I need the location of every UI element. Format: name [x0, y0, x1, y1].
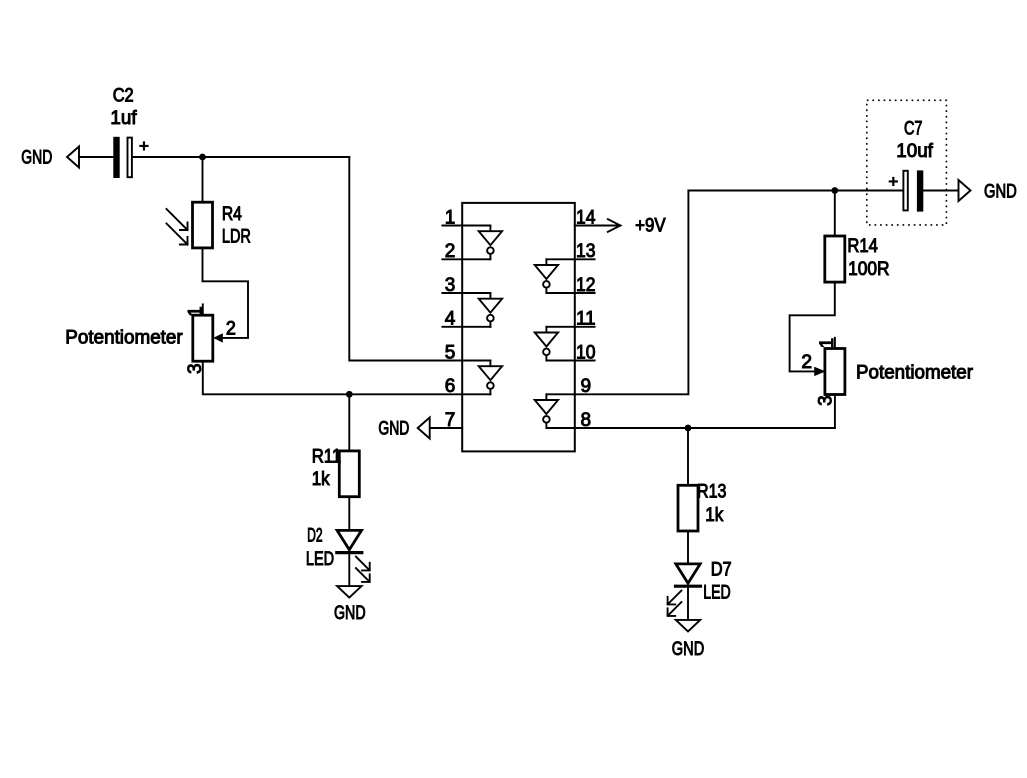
potentiometer (left) pin 1 stub: [202, 304, 204, 315]
potentiometer (right) body: [825, 349, 845, 395]
svg-text:D7: D7: [711, 560, 732, 581]
svg-text:Potentiometer: Potentiometer: [65, 328, 183, 349]
node A junction dot: [199, 154, 206, 161]
inverter A (pins 1-2): [479, 226, 502, 260]
svg-text:100R: 100R: [848, 259, 890, 280]
wire node A down to IC pin 5: [349, 157, 462, 361]
inverter E (pins 11-10): [535, 327, 558, 361]
pin 10 stub: [575, 360, 595, 362]
+9V supply arrow: [608, 219, 621, 232]
potentiometer (left) body: [193, 315, 213, 361]
wire pin8 net horizontal: [575, 427, 835, 429]
junction dot pin6 / R11: [346, 391, 353, 398]
wire pin9 up to top right net: [575, 191, 689, 395]
svg-text:10: 10: [576, 342, 596, 363]
svg-text:4: 4: [445, 309, 456, 330]
pin 1 stub: [442, 225, 462, 227]
LDR light arrow 2: [167, 224, 188, 245]
svg-text:12: 12: [576, 275, 596, 296]
svg-text:GND: GND: [378, 419, 409, 440]
inverter E output line pin10: [546, 360, 574, 362]
svg-text:GND: GND: [334, 603, 366, 624]
pin 2 stub: [442, 258, 462, 260]
wire C7 to GND arrow (right): [923, 190, 958, 192]
svg-text:R14: R14: [847, 236, 878, 257]
svg-text:13: 13: [576, 241, 596, 262]
wire R11 to D2: [348, 497, 350, 531]
inverter B output line pin4: [462, 326, 490, 328]
resistor R11 body: [339, 451, 359, 497]
inverter E input line pin11: [546, 326, 574, 328]
potentiometer (left) wiper arrow pin 2: [213, 333, 223, 342]
inverter B input line pin3: [462, 292, 490, 294]
pin 11 stub: [575, 326, 595, 328]
svg-text:5: 5: [445, 342, 456, 363]
wire junction down to R13: [687, 428, 689, 485]
inverter D (pins 13-12): [535, 259, 558, 293]
svg-text:1: 1: [445, 207, 456, 228]
wire D2 to ground: [348, 553, 350, 587]
svg-text:C2: C2: [113, 86, 134, 107]
svg-text:1k: 1k: [705, 505, 723, 526]
dotted highlight box around C7: [867, 100, 947, 225]
svg-text:1: 1: [186, 306, 207, 317]
potentiometer (right) wiper arrow pin 2: [814, 367, 825, 376]
svg-text:2: 2: [445, 241, 456, 262]
svg-text:LED: LED: [703, 583, 730, 604]
ground (top left, open arrow): [67, 147, 79, 168]
svg-text:+: +: [888, 172, 898, 191]
wire top right net to C7: [688, 190, 903, 192]
capacitor C2 (polarized, 1uf): [113, 137, 132, 178]
svg-text:R13: R13: [697, 482, 727, 503]
resistor R4 (LDR body): [193, 202, 213, 248]
svg-text:2: 2: [801, 352, 812, 373]
wire C2 plus to node A and to pin5 drop: [133, 156, 349, 158]
inverter A input line pin1: [462, 225, 490, 227]
svg-text:6: 6: [445, 376, 456, 397]
ground (top right, open arrow): [959, 180, 971, 201]
svg-text:11: 11: [576, 309, 596, 330]
svg-text:3: 3: [445, 275, 456, 296]
inverter A output line pin2: [462, 258, 490, 260]
ground (below D7): [676, 620, 700, 632]
wire pin7 to GND arrow: [430, 427, 463, 429]
potentiometer (right) pin 1 stub: [834, 338, 836, 349]
inverter F input line pin9: [546, 393, 574, 395]
svg-text:C7: C7: [904, 119, 923, 140]
svg-text:1uf: 1uf: [110, 108, 137, 129]
ground (below D2): [337, 586, 361, 598]
svg-text:+: +: [139, 136, 149, 155]
svg-text:R11: R11: [312, 447, 342, 468]
svg-text:10uf: 10uf: [896, 141, 933, 162]
inverter D output line pin12: [546, 292, 574, 294]
svg-text:3: 3: [816, 395, 837, 406]
capacitor C7 (polarized, 10uf): [903, 170, 923, 211]
inverter C output line pin6: [462, 393, 490, 395]
wire pin14 to +9V: [575, 225, 621, 227]
junction dot pin8 / R13: [685, 425, 692, 432]
inverter F output line pin8: [546, 427, 574, 429]
pin 4 stub: [442, 326, 462, 328]
pin 12 stub: [575, 292, 595, 294]
wire junction down to R11: [348, 394, 350, 451]
svg-text:+9V: +9V: [635, 216, 666, 237]
wire pot pin3 to IC pin 6: [203, 361, 462, 394]
svg-text:R4: R4: [222, 204, 242, 225]
svg-text:1k: 1k: [312, 469, 330, 490]
resistor R14 body: [825, 236, 845, 282]
op-amp U1 hex inverter IC body: [462, 203, 575, 452]
wire R4 to potentiometer wiper: [203, 248, 249, 338]
svg-text:GND: GND: [21, 148, 52, 169]
svg-text:GND: GND: [984, 181, 1017, 202]
wire right pot pin3 down: [834, 395, 836, 429]
pin 13 stub: [575, 258, 595, 260]
wire node A down to R4: [202, 157, 204, 202]
svg-text:LED: LED: [306, 549, 334, 570]
wire node down to R14: [834, 191, 836, 237]
svg-text:D2: D2: [307, 525, 323, 546]
svg-text:2: 2: [226, 318, 236, 339]
junction dot R14 / C7 net: [831, 187, 838, 194]
resistor R13 body: [678, 485, 698, 531]
inverter C input line pin5: [462, 360, 490, 362]
LED D7: [668, 564, 701, 616]
wire R14 to potentiometer (right) wiper: [790, 282, 835, 371]
wire R13 to D7: [687, 531, 689, 564]
svg-text:GND: GND: [672, 639, 705, 660]
inverter F (pins 9-8): [535, 394, 558, 428]
inverter C (pins 5-6): [479, 361, 502, 395]
inverter D input line pin13: [546, 258, 574, 260]
LDR light arrow 1: [167, 209, 188, 230]
svg-text:LDR: LDR: [222, 226, 251, 247]
wire GND arrow to C2 negative plate: [79, 156, 114, 158]
pin 3 stub: [442, 292, 462, 294]
svg-text:1: 1: [817, 338, 838, 349]
LED D2: [337, 530, 370, 582]
ground (pin 7, open arrow): [418, 418, 430, 439]
wire D7 to ground: [687, 586, 689, 620]
inverter B (pins 3-4): [479, 293, 502, 327]
svg-text:Potentiometer: Potentiometer: [856, 362, 974, 383]
